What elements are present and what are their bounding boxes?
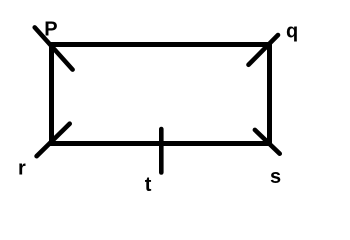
svg-text:t: t — [145, 174, 152, 196]
svg-text:P: P — [44, 18, 57, 40]
svg-text:s: s — [270, 166, 281, 188]
svg-text:r: r — [18, 158, 26, 180]
svg-text:q: q — [286, 21, 298, 43]
